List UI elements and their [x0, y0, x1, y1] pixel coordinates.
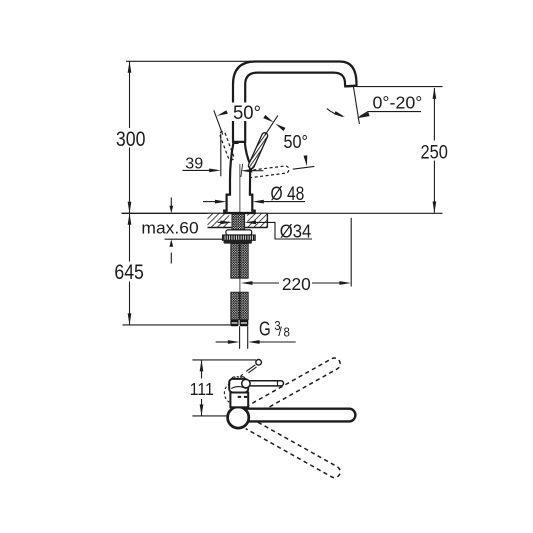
250 top arrow — [433, 87, 437, 99]
svg-text:G: G — [259, 318, 271, 340]
dimension O34 left arrow — [218, 221, 221, 223]
svg-text:300: 300 — [116, 128, 146, 151]
111 bottom arrow — [200, 404, 204, 416]
supply hose upper left — [231, 244, 239, 279]
dimension 250 line — [433, 88, 435, 141]
counter hatch right slab — [247, 214, 267, 227]
svg-text:/: / — [278, 324, 282, 339]
50 deg upper left arrow — [217, 110, 228, 116]
hose end fitting right — [240, 320, 249, 327]
dimension O34 right arrow — [245, 221, 257, 225]
dimension 111 line — [201, 360, 203, 379]
threaded shank through counter — [232, 214, 245, 230]
joint tick — [233, 141, 238, 144]
dimension 300 line — [129, 61, 131, 128]
dashed swivel spout lower — [246, 419, 343, 480]
top reference line — [126, 60, 258, 62]
swivel hub circle — [228, 407, 249, 428]
645 top arrow — [128, 213, 132, 225]
raised lever shaft lines — [246, 365, 255, 372]
lever dashed (horizontal position) — [248, 166, 289, 178]
supply hose upper right — [240, 244, 248, 279]
dimension 0-20 reference line — [357, 86, 443, 88]
300 top arrow — [128, 61, 132, 73]
lever solid (up-right position) — [248, 133, 267, 169]
50 deg upper right arrow — [263, 115, 273, 123]
raised lever tip circle — [256, 360, 262, 366]
300 bottom arrow — [128, 202, 132, 214]
dimension 50 deg upper: white backing — [230, 103, 264, 122]
svg-text:645: 645 — [114, 261, 143, 284]
50 deg lower upper arrow — [275, 124, 285, 132]
lever solid axis line — [265, 115, 278, 135]
washer under counter — [226, 230, 252, 235]
max.60 bottom arrow — [170, 253, 172, 264]
nut flange — [224, 240, 252, 243]
counter bottom line — [208, 227, 268, 229]
dimension O48 left arrow — [203, 201, 216, 203]
250 bottom arrow — [433, 202, 437, 214]
dimension 111 top reference line — [192, 359, 256, 361]
dashed arc left of body — [224, 383, 230, 402]
counter hatch left slab — [208, 214, 230, 227]
centerline upper segment — [239, 164, 241, 213]
dimension 220 line left — [252, 282, 279, 284]
counter right edge — [266, 213, 268, 227]
dimension max.60 top arrow — [170, 198, 172, 207]
faucet body — [224, 142, 255, 213]
dimension 39 line left — [183, 169, 211, 171]
svg-text:8: 8 — [284, 326, 290, 340]
dimension 220 extension line — [350, 218, 352, 287]
svg-text:max.60: max.60 — [141, 218, 198, 237]
svg-text:50°: 50° — [284, 132, 309, 152]
spout mouth face — [345, 84, 356, 87]
dimension 220 line right — [312, 282, 340, 284]
dimension G38 right arrow and underline — [259, 341, 295, 343]
upper block inner detail — [231, 387, 246, 389]
svg-text:220: 220 — [282, 274, 311, 294]
body/spout joint line — [233, 141, 245, 143]
svg-text:Ø 48: Ø 48 — [271, 183, 305, 205]
dimension G38 left arrow — [216, 341, 229, 343]
mounting nut — [223, 235, 256, 240]
hose end fitting left — [230, 320, 238, 327]
dimension 0-20 underline and leader arrow — [360, 112, 422, 117]
111 top arrow — [200, 360, 204, 372]
body internal slant line — [241, 164, 243, 177]
lever joint circle — [242, 379, 250, 387]
dimension 39 line right — [252, 170, 263, 172]
G3/8 tail tube — [239, 326, 241, 349]
lever dashed (up-left position) — [220, 131, 234, 160]
upper block top curls — [232, 377, 246, 379]
lever dashed axis line — [214, 110, 223, 134]
raised lever dash — [240, 374, 243, 376]
max.60 lower reference line — [165, 238, 223, 240]
lever top view bar — [247, 381, 284, 386]
O34 leader — [255, 222, 312, 239]
svg-text:0°-20°: 0°-20° — [373, 92, 423, 112]
svg-text:39: 39 — [185, 155, 203, 172]
dimension 645 line — [129, 213, 131, 261]
spout tube — [233, 62, 357, 142]
body mid block — [230, 393, 248, 408]
dashed swivel spout upper — [246, 356, 343, 417]
counter top line — [122, 212, 268, 214]
dimension 111 bottom reference line — [192, 415, 227, 417]
bottom reference line (hose ends) — [123, 324, 231, 326]
mid block ticks — [238, 396, 241, 398]
spout tilt line — [353, 86, 359, 124]
horizontal lever axis line — [293, 166, 315, 169]
body upper block — [229, 379, 248, 393]
svg-text:50°: 50° — [233, 102, 261, 124]
centerline lower segment — [239, 279, 241, 293]
645 bottom arrow — [128, 313, 132, 325]
50 deg lower bottom arrow — [304, 155, 308, 166]
svg-text:Ø34: Ø34 — [280, 221, 312, 242]
svg-text:111: 111 — [190, 379, 214, 399]
lever end cap line — [277, 381, 279, 386]
spout top view pill — [238, 409, 355, 422]
svg-text:250: 250 — [421, 142, 448, 164]
supply hose lower right — [240, 292, 248, 320]
counter top extension line to 250 dim — [267, 212, 442, 214]
0-20 rotation arc — [327, 109, 343, 117]
supply hose lower left — [231, 292, 239, 320]
dimension O48 right arrow — [263, 201, 305, 203]
dimension 39 extension line — [220, 134, 222, 177]
